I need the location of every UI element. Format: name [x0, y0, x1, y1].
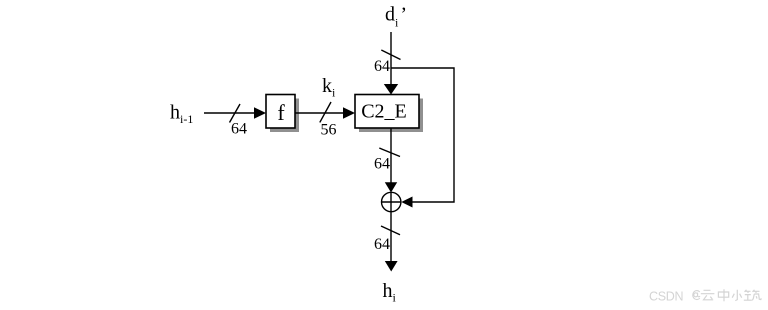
function box f — [266, 95, 295, 129]
svg-text:64: 64 — [374, 58, 390, 75]
wire C2_E to XOR — [390, 128, 392, 183]
wire d_i' down to C2_E — [390, 32, 392, 85]
wire h_i-1 to f — [204, 112, 256, 114]
svg-text:f: f — [277, 100, 285, 125]
box C2_E shadow — [359, 99, 423, 133]
wire f to C2_E — [295, 112, 345, 114]
svg-text:C2_E: C2_E — [361, 101, 407, 123]
arrowhead into f — [254, 107, 266, 118]
watermark hanzi zhong — [718, 289, 728, 301]
svg-text:64: 64 — [231, 121, 247, 138]
svg-text:64: 64 — [374, 156, 390, 173]
svg-text:hi: hi — [383, 280, 397, 305]
watermark hanzi xiao — [732, 290, 742, 301]
arrowhead into C2_E top — [384, 84, 398, 95]
watermark at-sign — [693, 291, 700, 300]
feedforward wire (branch right, down, into XOR) — [391, 68, 454, 202]
wire XOR to output (vertical bar through XOR) — [390, 193, 392, 262]
box f shadow — [270, 99, 299, 133]
arrowhead output — [385, 261, 398, 272]
svg-text:64: 64 — [374, 236, 390, 253]
svg-text:ki: ki — [322, 75, 336, 100]
bus slash output wire — [381, 226, 400, 235]
bus slash on d_i' wire — [381, 50, 400, 60]
watermark hanzi yun — [701, 290, 715, 300]
svg-text:di’: di’ — [385, 4, 407, 30]
bus slash on h_i-1 wire — [230, 104, 241, 123]
bus slash on k_i wire — [320, 102, 331, 122]
arrowhead into XOR top — [385, 182, 397, 192]
bus slash C2_E output — [379, 148, 400, 157]
watermark hanzi zhu — [744, 290, 762, 301]
svg-text:56: 56 — [321, 122, 337, 139]
XOR gate circle — [382, 192, 401, 211]
arrowhead into XOR right — [401, 197, 412, 208]
cipher box C2_E — [355, 95, 419, 129]
svg-text:CSDN: CSDN — [649, 290, 683, 304]
XOR gate plus horizontal bar — [382, 201, 402, 203]
svg-text:hi-1: hi-1 — [170, 102, 193, 127]
arrowhead into C2_E — [343, 107, 355, 118]
